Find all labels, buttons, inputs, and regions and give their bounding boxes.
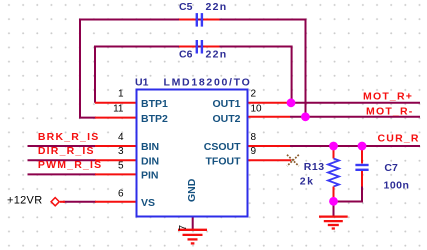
svg-text:MOT_R-: MOT_R- (366, 106, 413, 118)
svg-text:22n: 22n (206, 49, 228, 61)
resistor R13 (328, 147, 339, 202)
pin name BTP2 (141, 113, 168, 125)
value 100n (C7) (384, 179, 410, 191)
value 22n (C5) (206, 1, 228, 13)
svg-text:3: 3 (118, 146, 124, 157)
pin name GND (rotated) (186, 178, 198, 202)
pin number 1 (118, 89, 124, 100)
ground below R13 (319, 217, 348, 229)
svg-text:22n: 22n (206, 1, 228, 13)
pin number 8 (251, 132, 257, 143)
wire MOT_R+ (290, 102, 420, 104)
value LMD18200/TO (164, 77, 252, 89)
svg-text:8: 8 (251, 132, 257, 143)
pin name TFOUT (206, 155, 242, 167)
pin number 4 (118, 132, 124, 143)
net label BRK_R_IS (38, 131, 100, 143)
wire C5 net top horizontal (80, 20, 306, 118)
svg-text:BRK_R_IS: BRK_R_IS (38, 131, 100, 143)
pin name BIN (141, 141, 159, 153)
pin number 9 (251, 146, 257, 157)
value 2k (R13) (300, 176, 315, 188)
designator R13 (304, 161, 325, 173)
svg-text:4: 4 (118, 132, 124, 143)
svg-text:DIN: DIN (141, 155, 159, 167)
power port +12VR diamond (51, 198, 65, 206)
wire DIR_R_IS (28, 159, 97, 161)
pin number 3 (118, 146, 124, 157)
junction node R13 bottom (329, 197, 338, 206)
svg-text:C5: C5 (179, 1, 193, 13)
pin 8 CSOUT (247, 145, 290, 147)
net label CUR_R (378, 132, 420, 144)
pin 9 TFOUT (247, 159, 291, 161)
svg-text:C7: C7 (384, 162, 398, 174)
pin number 5 (118, 160, 124, 171)
svg-text:R13: R13 (304, 161, 325, 173)
net label MOT_R+ (363, 90, 413, 102)
capacitor C6 (179, 40, 220, 54)
svg-text:6: 6 (118, 188, 124, 199)
svg-text:MOT_R+: MOT_R+ (363, 90, 413, 102)
net label DIR_R_IS (38, 145, 95, 157)
svg-text:10: 10 (251, 103, 263, 114)
svg-text:2: 2 (251, 89, 257, 100)
svg-text:1: 1 (118, 89, 124, 100)
value 22n (C6) (206, 49, 228, 61)
svg-text:PWM_R_IS: PWM_R_IS (38, 159, 102, 171)
svg-text:PIN: PIN (141, 170, 159, 182)
op-amp U1 chip body LMD18200/TO (137, 90, 248, 217)
wire BTP2 stub (79, 117, 96, 119)
junction node R13 top (329, 142, 338, 151)
svg-text:GND: GND (186, 178, 198, 202)
net label MOT_R- (366, 106, 413, 118)
pin 4 BIN (95, 145, 137, 147)
svg-text:TFOUT: TFOUT (206, 155, 242, 167)
pin 11 BTP2 (95, 117, 137, 119)
junction node C7 top (358, 142, 367, 151)
svg-text:11: 11 (113, 103, 124, 114)
pin name CSOUT (204, 141, 241, 153)
wire R13 bottom to ground (333, 202, 335, 217)
wire R13 bottom to C7 bottom (334, 186, 363, 202)
wire CUR_R (290, 145, 420, 147)
pin 3 DIN (95, 159, 137, 161)
svg-text:5: 5 (118, 160, 124, 171)
wire chip GND pin to ground (192, 217, 194, 230)
pin 10 OUT2 (247, 116, 290, 118)
capacitor C5 (179, 13, 220, 27)
pin number 11 (113, 103, 124, 114)
capacitor C7 (355, 147, 368, 187)
svg-text:BIN: BIN (141, 141, 159, 153)
svg-text:CSOUT: CSOUT (204, 141, 241, 153)
pin number 7 (GND) (178, 225, 189, 231)
pin 1 BTP1 (95, 102, 137, 104)
svg-text:100n: 100n (384, 179, 410, 191)
svg-text:2k: 2k (300, 176, 315, 188)
pin number 2 (251, 89, 257, 100)
designator C7 (384, 162, 398, 174)
svg-text:7: 7 (178, 225, 189, 231)
wire BRK_R_IS (28, 145, 97, 147)
ground below chip (178, 230, 207, 244)
designator C6 (179, 49, 193, 61)
designator U1 (135, 77, 149, 89)
pin number 10 (251, 103, 263, 114)
svg-text:+12VR: +12VR (7, 195, 42, 207)
svg-text:BTP1: BTP1 (141, 98, 168, 110)
pin name OUT2 (212, 113, 240, 125)
pin number 6 (118, 188, 124, 199)
pin name BTP1 (141, 98, 168, 110)
junction node C5/OUT2 (301, 112, 310, 121)
svg-text:DIR_R_IS: DIR_R_IS (38, 145, 95, 157)
pin 6 VS (95, 201, 137, 203)
svg-text:U1: U1 (135, 77, 149, 89)
wire PWM_R_IS (28, 173, 97, 175)
svg-text:OUT1: OUT1 (212, 98, 240, 110)
pin name OUT1 (212, 98, 240, 110)
svg-text:OUT2: OUT2 (212, 113, 240, 125)
svg-text:VS: VS (141, 197, 155, 209)
wire MOT_R- (290, 116, 420, 118)
wire C6 net horizontal (95, 47, 292, 103)
pin name DIN (141, 155, 159, 167)
junction node C6/OUT1 (287, 98, 296, 107)
power label +12VR (7, 195, 42, 207)
pin 5 PIN (95, 173, 137, 175)
svg-text:9: 9 (251, 146, 257, 157)
svg-text:BTP2: BTP2 (141, 113, 168, 125)
net label PWM_R_IS (38, 159, 102, 171)
wire +12VR to VS pin (63, 201, 96, 203)
svg-text:CUR_R: CUR_R (378, 132, 420, 144)
pin name VS (141, 197, 155, 209)
no-connect X on pin 9 (287, 155, 299, 166)
svg-text:LMD18200/TO: LMD18200/TO (164, 77, 252, 89)
svg-text:C6: C6 (179, 49, 193, 61)
designator C5 (179, 1, 193, 13)
pin name PIN (141, 170, 159, 182)
pin 2 OUT1 (247, 102, 290, 104)
